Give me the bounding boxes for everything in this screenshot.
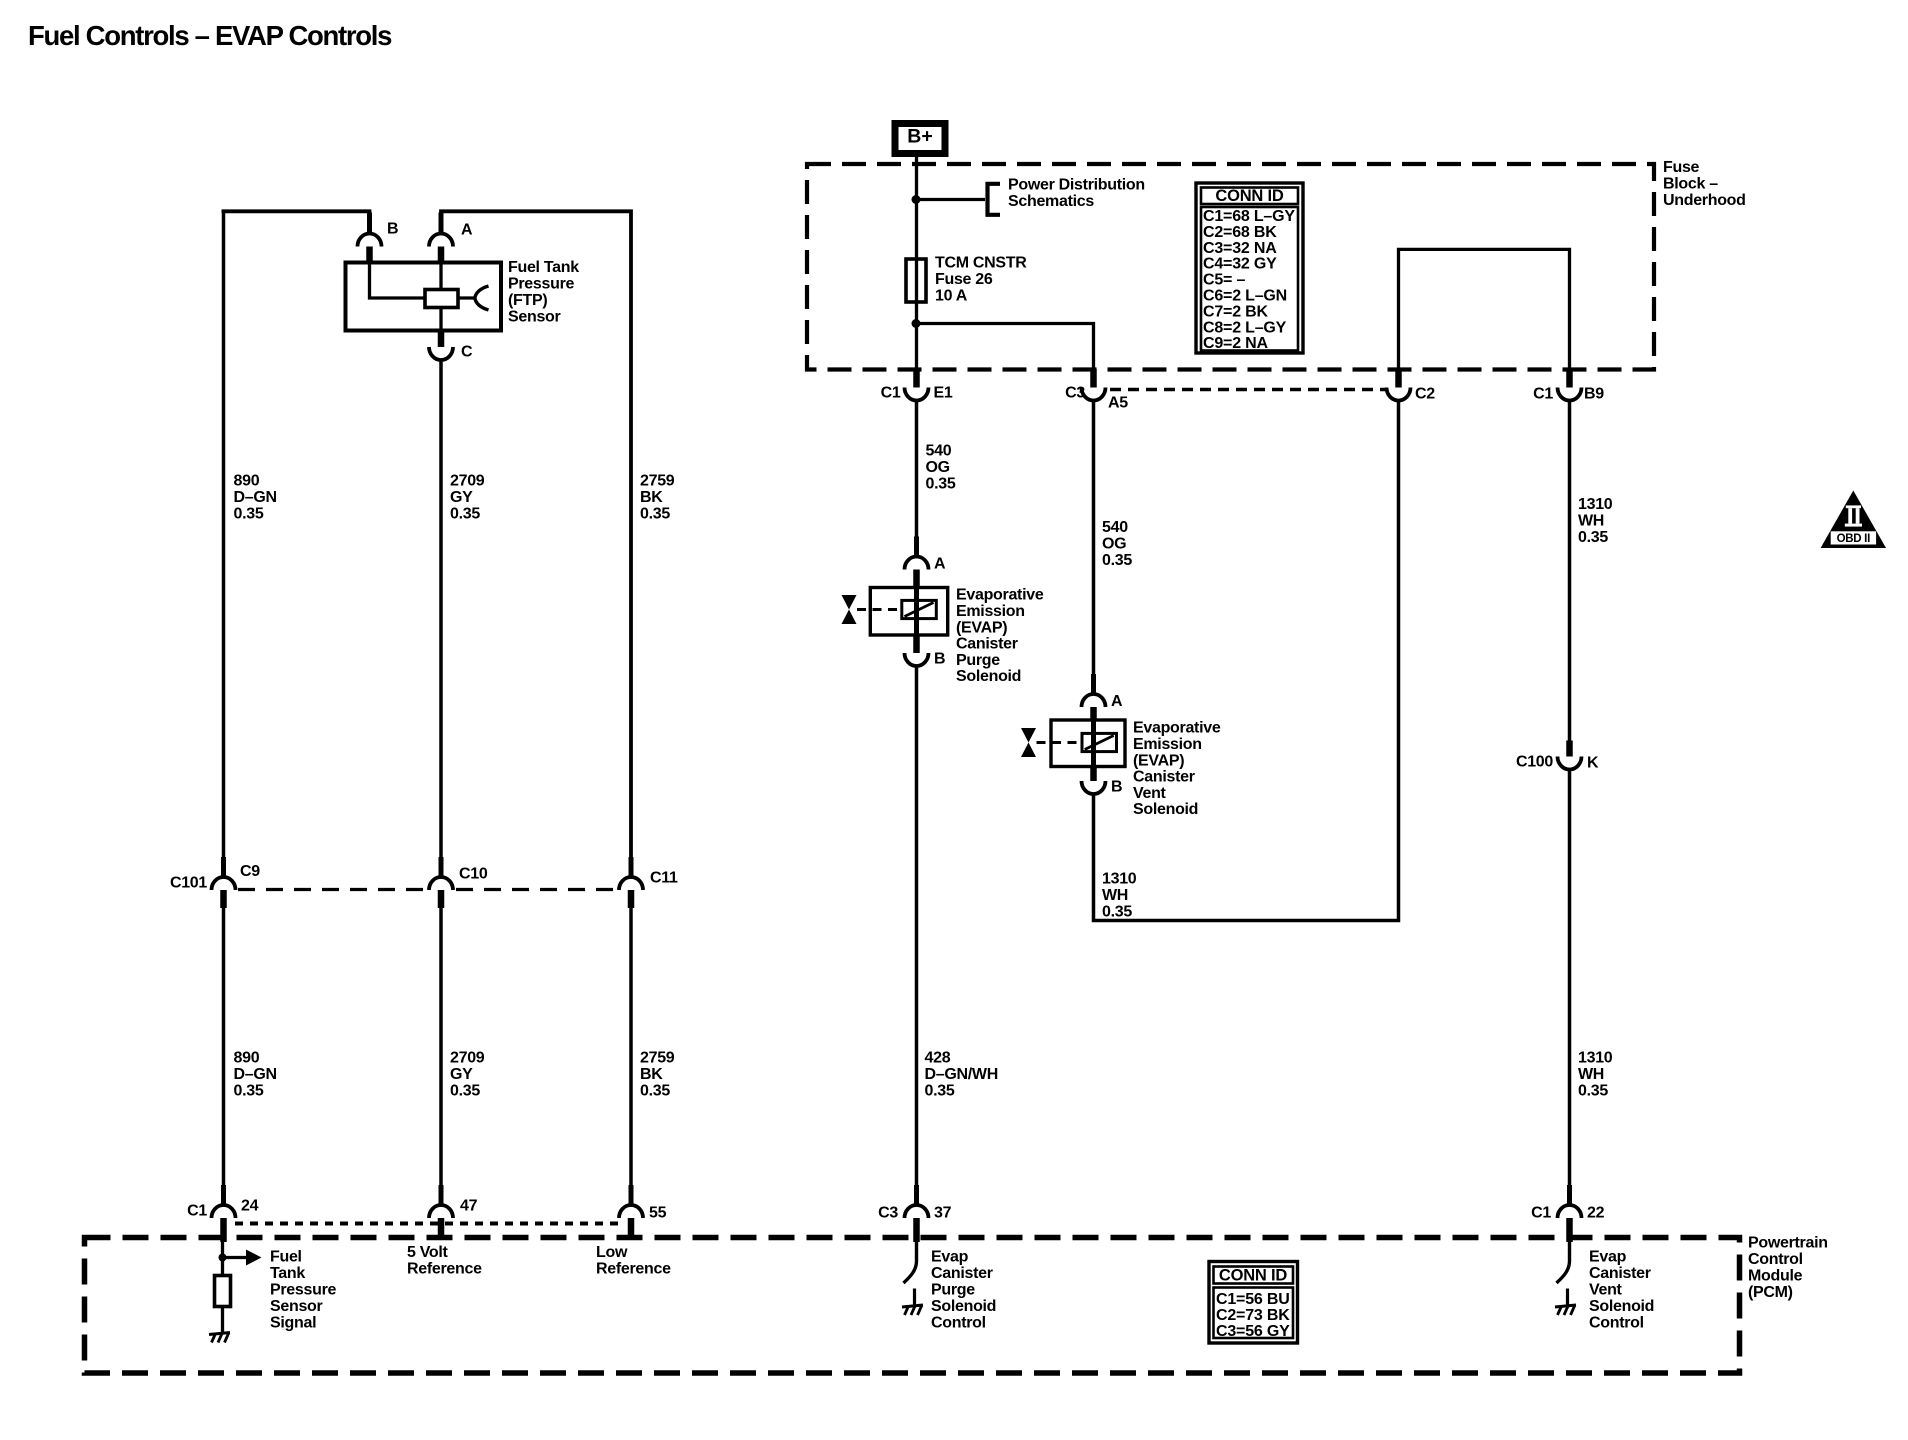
- wire: driver ground stub (pin 22): [1566, 1289, 1569, 1306]
- connector terminal B of purge solenoid: [905, 653, 929, 666]
- svg-text:C3: C3: [878, 1205, 898, 1222]
- arrowhead: fuel tank pressure sensor signal: [246, 1250, 262, 1266]
- wire: left 890 D-GN vertical from top loop to C9: [222, 210, 226, 879]
- svg-text:C1: C1: [187, 1203, 207, 1220]
- wire: 2709 GY vertical from C to C10: [439, 359, 443, 878]
- dashed connector line C9 to C10: [238, 888, 428, 891]
- stub below pin 47: [438, 1218, 445, 1240]
- svg-text:A: A: [1111, 693, 1123, 710]
- dashed actuator link (purge): [857, 608, 901, 611]
- stub below pin 22: [1566, 1218, 1573, 1242]
- svg-text:A: A: [934, 556, 946, 573]
- wire: 1310 WH from vent B looping up to C2: [1094, 399, 1399, 921]
- svg-text:C6=2 L–GN: C6=2 L–GN: [1203, 288, 1287, 305]
- svg-text:C1: C1: [1531, 1205, 1551, 1222]
- svg-text:EvaporativeEmission(EVAP)Canis: EvaporativeEmission(EVAP)CanisterPurgeSo…: [956, 587, 1044, 686]
- CONN ID table of PCM: [1209, 1262, 1298, 1344]
- svg-text:B: B: [1111, 779, 1122, 796]
- svg-text:37: 37: [934, 1205, 952, 1222]
- resistor inside PCM on pin 24: [215, 1276, 231, 1307]
- stub below C9: [220, 890, 227, 908]
- svg-text:C1=56 BU: C1=56 BU: [1216, 1291, 1290, 1308]
- svg-text:C100: C100: [1516, 754, 1553, 771]
- stub at fuse block exit A5: [1090, 369, 1097, 388]
- wire neck above pin 37: [914, 1185, 919, 1206]
- svg-text:EvapCanisterPurgeSolenoidContr: EvapCanisterPurgeSolenoidControl: [931, 1249, 996, 1332]
- connector cup at fuse block exit E1: [905, 388, 929, 401]
- stub out of FTP sensor at C: [438, 331, 445, 348]
- svg-text:C5= –: C5= –: [1203, 272, 1245, 289]
- svg-text:5 VoltReference: 5 VoltReference: [407, 1244, 482, 1277]
- wire: B+ feed down through fuse block: [915, 157, 918, 371]
- ground symbol inside PCM (pin 22): [1555, 1305, 1576, 1315]
- wire neck above C10: [439, 857, 444, 878]
- wire: fuse output to A5 drop: [917, 324, 1094, 372]
- svg-text:1310WH0.35: 1310WH0.35: [1578, 496, 1613, 546]
- wire neck above vent A: [1091, 674, 1096, 695]
- connector PCM pin 47: [429, 1205, 453, 1218]
- svg-text:C3=56 GY: C3=56 GY: [1216, 1323, 1290, 1340]
- svg-text:C8=2 L–GY: C8=2 L–GY: [1203, 319, 1287, 336]
- svg-text:1310WH0.35: 1310WH0.35: [1102, 871, 1137, 921]
- wire: 540 OG from E1 down to purge solenoid A: [915, 399, 919, 557]
- connector PCM pin 24: [212, 1205, 236, 1218]
- connector C101 cavity C10: [429, 877, 453, 890]
- wire: resistor to wiper fork: [458, 296, 475, 299]
- svg-text:B: B: [387, 221, 398, 238]
- solenoid coil element (vent): [1082, 733, 1117, 751]
- svg-text:Fuel Controls – EVAP Controls: Fuel Controls – EVAP Controls: [28, 20, 392, 51]
- svg-text:EvapCanisterVentSolenoidContro: EvapCanisterVentSolenoidControl: [1589, 1249, 1654, 1332]
- stub at inline connector C100: [1566, 741, 1573, 757]
- wire: purge solenoid internal vertical: [914, 588, 919, 636]
- svg-text:C2=73 BK: C2=73 BK: [1216, 1307, 1290, 1324]
- svg-text:EvaporativeEmission(EVAP)Canis: EvaporativeEmission(EVAP)CanisterVentSol…: [1133, 720, 1221, 819]
- svg-text:C1: C1: [1533, 386, 1553, 403]
- svg-text:C101: C101: [170, 875, 207, 892]
- wire: pin 24 into PCM: [221, 1240, 224, 1276]
- svg-text:2709GY0.35: 2709GY0.35: [450, 473, 485, 523]
- dashed connector line C10 to C11: [456, 888, 618, 891]
- connector terminal B of vent solenoid: [1082, 781, 1106, 794]
- svg-text:C7=2 BK: C7=2 BK: [1203, 303, 1268, 320]
- dashed actuator link (vent): [1037, 741, 1082, 744]
- valve symbol of vent solenoid: [1021, 728, 1036, 757]
- svg-text:C2: C2: [1415, 386, 1435, 403]
- valve symbol of purge solenoid: [842, 595, 857, 624]
- wire neck above FTP B: [367, 213, 372, 235]
- wire: driver ground stub (pin 37): [913, 1289, 916, 1306]
- wire: 540 OG from A5 down to vent solenoid A: [1092, 399, 1096, 695]
- stub into purge solenoid at A: [913, 570, 920, 589]
- CONN ID table of fuse block: [1196, 183, 1303, 353]
- ground symbol inside PCM (pin 37): [902, 1305, 923, 1315]
- svg-text:C9=2 NA: C9=2 NA: [1203, 335, 1268, 352]
- stub into vent solenoid at A: [1090, 707, 1097, 721]
- connector C100 cavity K: [1558, 757, 1582, 770]
- svg-text:2709GY0.35: 2709GY0.35: [450, 1050, 485, 1100]
- wire neck above pin 55: [629, 1185, 634, 1206]
- svg-text:FuelTankPressureSensorSignal: FuelTankPressureSensorSignal: [270, 1249, 336, 1332]
- svg-text:C10: C10: [459, 866, 488, 883]
- fuse block underhood dashed outline: [807, 164, 1654, 370]
- dashed connector line A5 to C2: [1110, 388, 1387, 392]
- wire: arrow shaft FTP signal: [223, 1256, 248, 1259]
- junction at FTP signal tap: [219, 1254, 227, 1262]
- svg-text:E1: E1: [934, 385, 953, 402]
- wire neck above pin 47: [439, 1185, 444, 1206]
- connector PCM pin 37: [905, 1205, 929, 1218]
- connector cup at fuse block exit B9: [1558, 388, 1582, 401]
- svg-text:1310WH0.35: 1310WH0.35: [1578, 1050, 1613, 1100]
- svg-text:C2=68 BK: C2=68 BK: [1203, 224, 1277, 241]
- FTP sensor U1: Fuel Tank Pressure sensor outline: [346, 263, 502, 331]
- stub into FTP sensor at A: [438, 247, 445, 264]
- connector PCM pin 55: [619, 1205, 643, 1218]
- connector cup at fuse block exit C2: [1387, 388, 1411, 401]
- stub at fuse block exit E1: [913, 369, 920, 388]
- dotted connector line PCM pins 24-47-55: [235, 1222, 620, 1226]
- solenoid coil element (purge): [902, 600, 937, 618]
- wire neck above pin 24: [221, 1185, 226, 1206]
- power feed B+ box: [895, 124, 945, 154]
- wire: resistor to ground inside PCM: [221, 1307, 224, 1334]
- svg-text:A5: A5: [1108, 395, 1128, 412]
- wire: top-right horizontal from FTP pin A to 2759 BK: [441, 211, 631, 878]
- fuse TCM CNSTR Fuse 26 10A body: [906, 259, 926, 302]
- svg-text:C1=68 L–GY: C1=68 L–GY: [1203, 208, 1295, 225]
- wire: pin 22 driver blade: [1557, 1240, 1570, 1283]
- wire: 2759 BK lower vertical C11 to PCM 55: [629, 906, 633, 1206]
- svg-text:47: 47: [460, 1198, 478, 1215]
- OBD II marker triangle: [1821, 491, 1886, 549]
- wire: FTP internal B branch to resistor: [370, 263, 426, 299]
- svg-text:FuseBlock –Underhood: FuseBlock –Underhood: [1663, 159, 1746, 209]
- svg-text:TCM CNSTRFuse 2610 A: TCM CNSTRFuse 2610 A: [935, 255, 1027, 305]
- wire: 428 D-GN/WH from purge B to PCM 37: [915, 665, 919, 1207]
- svg-text:A: A: [461, 222, 473, 239]
- svg-text:B: B: [934, 651, 945, 668]
- svg-text:Power DistributionSchematics: Power DistributionSchematics: [1008, 177, 1145, 210]
- wiper fork contact inside FTP sensor: [475, 286, 489, 310]
- wire: FTP internal A-to-C vertical: [439, 263, 442, 331]
- svg-text:K: K: [1587, 755, 1599, 772]
- wire: top-left horizontal to FTP pin B: [222, 211, 370, 233]
- EVAP canister purge solenoid box: [870, 588, 947, 636]
- wire: internal link C2 up over to B9: [1399, 249, 1570, 371]
- svg-text:CONN ID: CONN ID: [1215, 187, 1284, 205]
- connector terminal A of FTP sensor: [429, 234, 453, 247]
- wire: pin 37 driver blade: [904, 1240, 917, 1283]
- junction at power distribution tap: [912, 195, 921, 204]
- svg-text:C1: C1: [881, 385, 901, 402]
- junction after fuse: [912, 319, 921, 328]
- bracket symbol: Power Distribution Schematics reference: [988, 184, 1001, 215]
- stub out of vent solenoid at B: [1090, 767, 1097, 782]
- wire: 2709 GY lower vertical C10 to PCM 47: [439, 906, 443, 1206]
- wire: 890 D-GN lower vertical C9 to PCM 24: [222, 906, 226, 1206]
- resistor element inside FTP sensor: [425, 290, 458, 308]
- connector C101 cavity C9: [212, 877, 236, 890]
- svg-text:PowertrainControlModule(PCM): PowertrainControlModule(PCM): [1748, 1235, 1828, 1301]
- stub below C10: [438, 890, 445, 908]
- svg-text:C3: C3: [1065, 385, 1085, 402]
- wire neck above pin 22: [1567, 1185, 1572, 1206]
- connector cup at fuse block exit A5: [1082, 388, 1106, 401]
- svg-text:24: 24: [241, 1198, 259, 1215]
- stub below pin 37: [913, 1218, 920, 1242]
- svg-text:2759BK0.35: 2759BK0.35: [640, 473, 675, 523]
- svg-text:B9: B9: [1584, 386, 1604, 403]
- wire neck above C9: [221, 857, 226, 878]
- svg-text:OBD II: OBD II: [1837, 533, 1870, 545]
- wire neck above purge A: [914, 537, 919, 558]
- powertrain control module dashed outline: [85, 1238, 1740, 1374]
- ground symbol inside PCM (pin 24): [209, 1333, 230, 1343]
- stub into FTP sensor at B: [366, 247, 373, 264]
- svg-text:2759BK0.35: 2759BK0.35: [640, 1050, 675, 1100]
- wire: vent solenoid internal vertical: [1091, 720, 1096, 767]
- stub below pin 55: [628, 1218, 635, 1240]
- stub at fuse block exit C2: [1395, 369, 1402, 388]
- connector terminal B of FTP sensor: [358, 234, 382, 247]
- svg-text:LowReference: LowReference: [596, 1244, 671, 1277]
- svg-text:890D–GN0.35: 890D–GN0.35: [234, 473, 277, 523]
- svg-text:Fuel TankPressure(FTP)Sensor: Fuel TankPressure(FTP)Sensor: [508, 259, 579, 325]
- wire: 1310 WH from B9 down to C100: [1568, 399, 1572, 742]
- stub out of purge solenoid at B: [913, 635, 920, 653]
- svg-text:C9: C9: [240, 863, 260, 880]
- connector C101 cavity C11: [619, 877, 643, 890]
- stub at fuse block exit B9: [1566, 369, 1573, 388]
- wire neck above FTP A: [439, 213, 444, 235]
- svg-text:C11: C11: [650, 870, 678, 887]
- connector terminal A of vent solenoid: [1082, 694, 1106, 707]
- svg-text:540OG0.35: 540OG0.35: [1102, 519, 1132, 569]
- svg-text:C: C: [461, 344, 473, 361]
- wire: 1310 WH from C100 down to PCM 22: [1568, 769, 1572, 1207]
- stub below C11: [628, 890, 635, 908]
- svg-text:CONN ID: CONN ID: [1219, 1267, 1288, 1285]
- svg-text:C3=32 NA: C3=32 NA: [1203, 240, 1277, 257]
- svg-text:890D–GN0.35: 890D–GN0.35: [234, 1050, 277, 1100]
- stub below pin 24: [220, 1218, 227, 1242]
- svg-text:22: 22: [1587, 1205, 1605, 1222]
- svg-text:B+: B+: [907, 126, 932, 148]
- wire neck above C11: [629, 857, 634, 878]
- connector terminal C of FTP sensor: [429, 347, 453, 360]
- wire: tap to power distribution bracket: [917, 198, 986, 201]
- svg-text:540OG0.35: 540OG0.35: [926, 443, 956, 493]
- svg-text:55: 55: [649, 1205, 667, 1222]
- connector terminal A of purge solenoid: [905, 557, 929, 570]
- connector PCM pin 22: [1558, 1205, 1582, 1218]
- svg-text:C4=32 GY: C4=32 GY: [1203, 256, 1277, 273]
- EVAP canister vent solenoid box: [1051, 720, 1125, 767]
- svg-text:428D–GN/WH0.35: 428D–GN/WH0.35: [925, 1050, 998, 1100]
